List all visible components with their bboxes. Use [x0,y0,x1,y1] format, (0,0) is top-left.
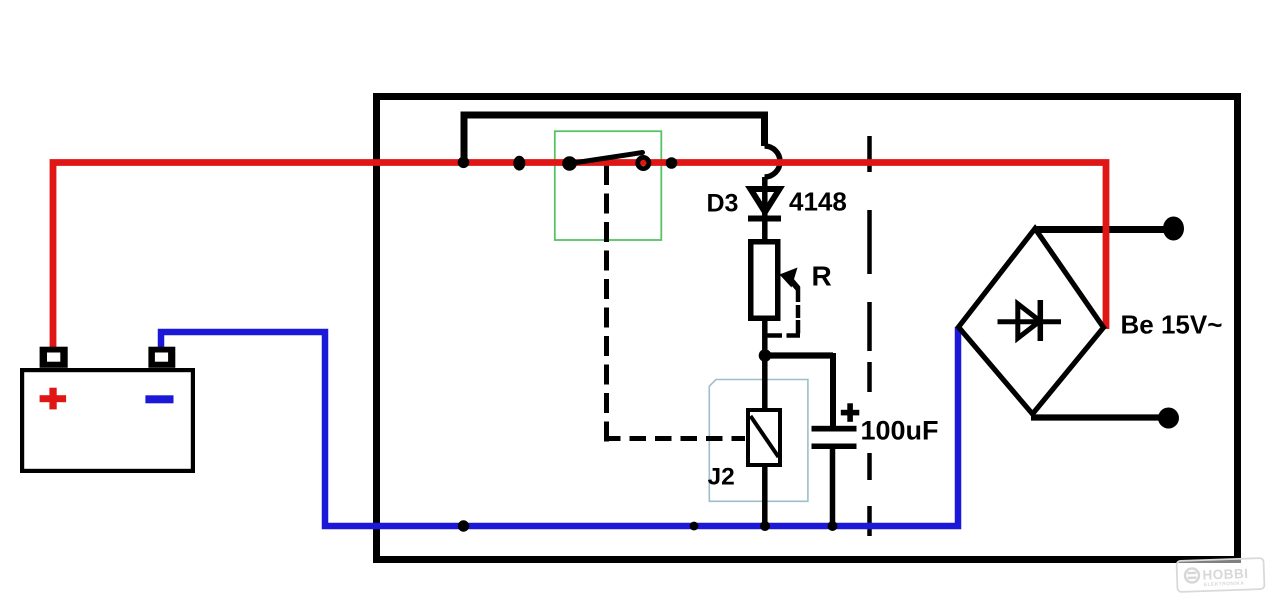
potentiometer wiper arrow [780,268,798,288]
svg-text:R: R [812,261,832,292]
wire: branch junction to capacitor [765,352,833,358]
relay J2 outline (light blue) [709,380,808,502]
node dot on red bus [513,156,525,171]
diode D3 cathode bar [748,216,781,222]
AC terminal dot bottom [1158,408,1179,429]
battery body [22,370,193,471]
AC terminal dot top [1163,217,1184,241]
node dot on red bus at loop branch [458,157,470,169]
svg-text:J2: J2 [708,464,735,491]
wire: top loop from red bus to diode branch [464,115,765,166]
diode D3 triangle [751,189,780,212]
bridge diode symbol [998,319,1062,324]
node dot on red bus right of contact [666,157,678,169]
capacitor bottom lead [830,449,836,526]
node dots on blue bus [458,520,469,531]
red positive bus wire [53,163,1106,348]
enclosure box frame [377,97,1238,560]
potentiometer wiper dashed link [768,287,801,336]
bridge rectifier diamond [959,229,1104,415]
junction node dot [759,349,772,362]
blue negative bus wire [161,327,958,526]
capacitor C 100uF top plate [812,426,857,432]
capacitor C 100uF bottom plate [812,444,857,450]
capacitor polarity plus [841,410,860,416]
wire hop over red bus [765,146,780,177]
wire: below resistor to blue bus [762,318,768,526]
battery plus mark [40,395,67,402]
switch open contact ring [638,157,649,168]
watermark badge [1176,558,1264,592]
battery positive terminal [40,347,68,368]
resistor R body [751,242,778,319]
svg-text:D3: D3 [707,190,739,218]
switch-to-coil mechanical dashed link [604,165,745,442]
battery negative terminal [148,347,175,368]
capacitor top lead [830,353,836,428]
relay coil J2 box [748,410,780,465]
transformer separator dashed line [867,136,872,536]
relay contact green frame [555,131,662,240]
wire: diode/resistor branch vertical [762,177,768,245]
wire: AC input top [1035,226,1164,233]
wire: AC input bottom [1031,414,1159,420]
svg-text:4148: 4148 [789,187,847,217]
svg-text:Be 15V~: Be 15V~ [1121,310,1223,340]
switch lever [570,153,643,164]
battery minus mark [145,395,173,403]
switch pole dot [562,156,577,171]
svg-text:100uF: 100uF [861,416,939,446]
